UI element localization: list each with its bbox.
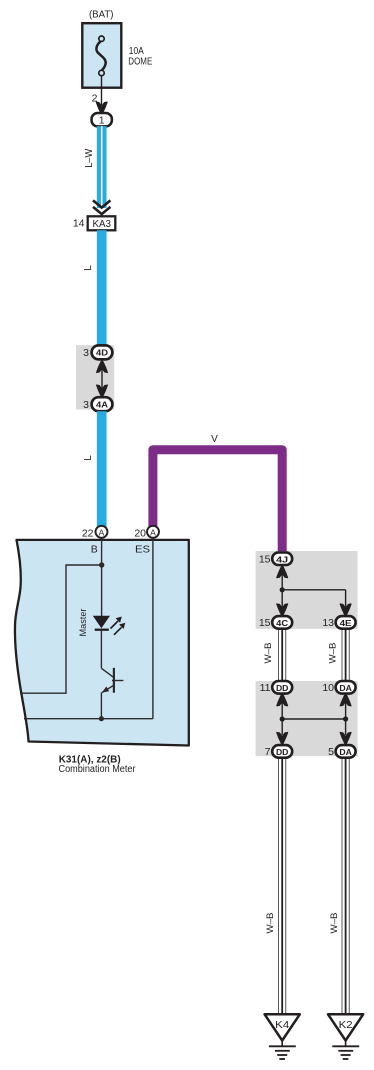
- svg-text:7: 7: [265, 746, 271, 758]
- svg-text:4A: 4A: [96, 399, 109, 409]
- svg-text:20: 20: [134, 527, 146, 539]
- svg-text:Master: Master: [78, 609, 89, 637]
- svg-text:L: L: [83, 265, 94, 271]
- svg-text:4C: 4C: [276, 618, 289, 628]
- svg-text:10A: 10A: [129, 46, 144, 57]
- svg-text:W–B: W–B: [328, 643, 339, 664]
- svg-text:L–W: L–W: [84, 148, 95, 168]
- svg-text:DD: DD: [276, 683, 289, 693]
- svg-text:1: 1: [99, 115, 105, 126]
- svg-text:4J: 4J: [276, 554, 288, 564]
- svg-text:KA3: KA3: [92, 218, 111, 230]
- svg-text:W–B: W–B: [329, 913, 340, 934]
- svg-text:ES: ES: [135, 544, 150, 556]
- svg-text:K2: K2: [339, 1019, 353, 1031]
- svg-text:DOME: DOME: [128, 57, 152, 68]
- svg-text:K4: K4: [275, 1019, 289, 1031]
- svg-text:DA: DA: [339, 747, 352, 757]
- svg-text:W–B: W–B: [263, 643, 274, 664]
- svg-text:B: B: [91, 544, 98, 556]
- svg-text:3: 3: [83, 347, 89, 359]
- svg-text:11: 11: [260, 682, 271, 694]
- svg-text:DD: DD: [276, 747, 289, 757]
- svg-text:13: 13: [322, 617, 334, 629]
- svg-text:L: L: [83, 455, 94, 461]
- svg-text:15: 15: [259, 554, 271, 566]
- svg-text:A: A: [99, 527, 105, 537]
- svg-text:Combination Meter: Combination Meter: [59, 764, 137, 775]
- svg-text:4D: 4D: [96, 348, 108, 358]
- svg-text:(BAT): (BAT): [89, 10, 114, 21]
- svg-text:V: V: [211, 434, 218, 445]
- svg-text:DA: DA: [339, 683, 352, 693]
- svg-text:W–B: W–B: [265, 913, 276, 934]
- svg-text:5: 5: [328, 746, 334, 758]
- svg-text:4E: 4E: [340, 618, 352, 628]
- svg-text:10: 10: [322, 682, 334, 694]
- svg-text:15: 15: [259, 617, 271, 629]
- svg-text:3: 3: [83, 399, 89, 411]
- svg-text:22: 22: [82, 527, 94, 539]
- svg-text:A: A: [150, 527, 156, 537]
- svg-text:14: 14: [73, 218, 85, 230]
